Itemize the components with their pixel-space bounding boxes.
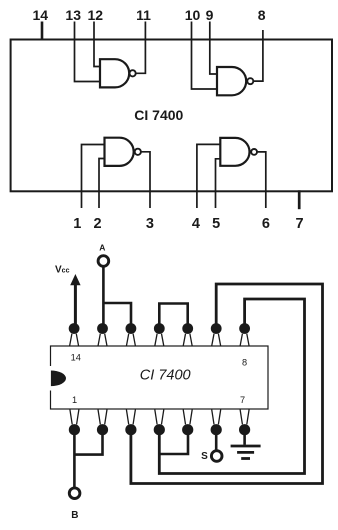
svg-text:7: 7: [240, 395, 245, 405]
bubble U1C: [135, 149, 141, 155]
pin 9 wire: [210, 22, 217, 75]
svg-text:10: 10: [185, 7, 201, 23]
wire pin8 loop to pin4: [159, 299, 304, 474]
pin 8 wire (U1B output): [253, 30, 263, 81]
svg-text:2: 2: [94, 216, 102, 232]
pin 3 wire (U1C output): [141, 152, 150, 208]
pin 1 legs: [70, 410, 72, 425]
pin 12 wire: [94, 22, 100, 67]
bottom pin numbers: [73, 216, 303, 232]
pin 14 legs: [70, 334, 72, 346]
pin 7 legs: [240, 410, 242, 425]
svg-text:S: S: [201, 451, 208, 462]
pin 10 wire: [192, 22, 218, 90]
wire pin9 loop to pin3: [131, 284, 323, 484]
svg-text:13: 13: [65, 7, 81, 23]
IC pins bottom row: [70, 410, 249, 425]
pin 4 wire: [197, 144, 220, 208]
pin 7 stub: [298, 190, 301, 209]
node pin4: [154, 424, 165, 435]
pin 6 wire (U1D output): [257, 152, 266, 208]
svg-text:1: 1: [73, 216, 81, 232]
IC pins top row: [70, 334, 250, 346]
pin 3 legs: [126, 410, 128, 425]
svg-text:B: B: [71, 510, 78, 521]
nand gate U1A: [100, 59, 129, 87]
node pin3: [125, 424, 136, 435]
output S terminal circle: [211, 451, 222, 462]
pin 12 legs: [126, 334, 128, 346]
ground symbol: [231, 446, 261, 459]
IC body outline: [11, 40, 332, 192]
wire pin4 to pin5 bridge: [159, 430, 188, 455]
wire pin2 to pin1 bridge: [74, 430, 102, 455]
pin 11 wire (U1A output): [136, 22, 146, 74]
solder dots top row: [69, 323, 250, 334]
pin 1 wire: [82, 145, 105, 209]
svg-text:CI 7400: CI 7400: [140, 368, 191, 384]
wire pin6 to S: [215, 430, 218, 451]
solder dots bottom row: [69, 424, 250, 435]
svg-text:7: 7: [296, 216, 304, 232]
svg-text:8: 8: [242, 357, 247, 367]
nand gate U1B: [217, 67, 246, 95]
wire A branch to pin12: [103, 303, 131, 329]
IC package body: [51, 346, 269, 409]
svg-text:14: 14: [71, 353, 81, 363]
pin 5 wire: [216, 159, 221, 208]
node pin13: [97, 323, 108, 334]
pin1 notch (D mark): [51, 371, 66, 387]
bubble U1B: [247, 78, 253, 84]
IC corner pin labels: [71, 353, 247, 405]
pin 9 legs: [212, 334, 214, 346]
pin 13 wire: [75, 22, 101, 82]
nand gate U1D: [220, 138, 249, 166]
bubble U1A: [130, 70, 136, 76]
node pin11: [154, 323, 165, 334]
pin 13 legs: [98, 334, 100, 346]
node pin12: [125, 323, 136, 334]
pin 5 legs: [183, 410, 185, 425]
node pin5: [182, 424, 193, 435]
node pin10: [182, 323, 193, 334]
svg-text:6: 6: [262, 216, 270, 232]
notch gap in left border: [49, 366, 52, 391]
node pin9: [211, 323, 222, 334]
svg-text:1: 1: [72, 395, 77, 405]
pin 8 legs: [240, 334, 242, 346]
svg-text:4: 4: [192, 216, 200, 232]
nand gate U1C: [105, 138, 134, 166]
wire pin7 to ground: [243, 430, 246, 445]
wire pin11 to pin10 bridge: [159, 304, 187, 329]
Vcc arrowhead: [70, 274, 80, 285]
pin 11 legs: [155, 334, 157, 346]
svg-text:12: 12: [88, 7, 104, 23]
svg-text:Vcc: Vcc: [55, 265, 70, 276]
pin 2 legs: [98, 410, 100, 425]
top pin numbers: [33, 7, 266, 23]
node pin8: [239, 323, 250, 334]
pin 14 stub: [41, 22, 44, 41]
node pin7: [239, 424, 250, 435]
svg-text:3: 3: [146, 216, 154, 232]
svg-text:8: 8: [258, 7, 266, 23]
pin 10 legs: [183, 334, 185, 346]
pin 6 legs: [212, 410, 214, 425]
wire pin1 to B: [73, 430, 76, 488]
node pin2: [97, 424, 108, 435]
bubble U1D: [251, 149, 257, 155]
node pin6: [211, 424, 222, 435]
Vcc arrow lead: [74, 284, 77, 327]
svg-text:A: A: [99, 243, 105, 253]
input A terminal circle: [98, 256, 109, 267]
svg-text:5: 5: [212, 216, 220, 232]
wire A to pin13: [102, 267, 105, 329]
node pin14: [69, 323, 80, 334]
svg-text:CI 7400: CI 7400: [134, 107, 183, 123]
svg-text:14: 14: [33, 7, 49, 23]
node pin1: [69, 424, 80, 435]
svg-text:9: 9: [206, 7, 214, 23]
input B terminal circle: [69, 488, 80, 499]
svg-text:11: 11: [136, 7, 151, 23]
pin 2 wire: [99, 159, 105, 209]
pin 4 legs: [155, 410, 157, 425]
